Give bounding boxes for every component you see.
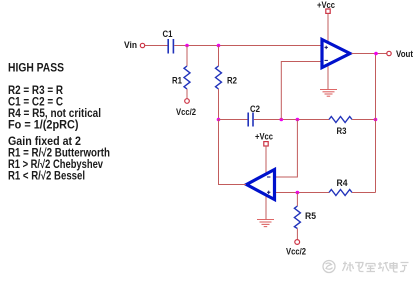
ground under U2 (257, 220, 274, 227)
resistor R5 (294, 206, 316, 229)
capacitor C2 (248, 104, 260, 127)
note text HIGH PASS (8, 63, 110, 183)
wire riser to op-amp U2 minus input (276, 120, 297, 178)
node Vout terminal (387, 49, 414, 60)
node junction riser to U2 minus (296, 118, 300, 122)
resistor R4 (329, 178, 352, 196)
node junction at R2 top (217, 44, 221, 48)
svg-text:R4: R4 (337, 178, 348, 188)
svg-text:Vout: Vout (396, 49, 414, 60)
wire R3 to right bus (352, 119, 376, 121)
svg-text:R1 = R/√2 Butterworth: R1 = R/√2 Butterworth (8, 147, 110, 160)
wire right bus Vout to R4 (375, 54, 377, 193)
svg-text:Vcc/2: Vcc/2 (286, 247, 306, 257)
wire Vin to C1 (145, 45, 168, 47)
svg-text:Fo = 1/(2pRC): Fo = 1/(2pRC) (8, 120, 79, 132)
node junction R3 right (374, 118, 378, 122)
node +Vcc terminal U1 (317, 0, 335, 13)
wire +Vcc to U2 (265, 146, 267, 176)
svg-text:R1: R1 (172, 76, 182, 86)
svg-text:R1 > R/√2 Chebyshev: R1 > R/√2 Chebyshev (8, 158, 103, 171)
wire middle rail to C2 (219, 119, 248, 121)
svg-text:C1 = C2 = C: C1 = C2 = C (8, 97, 63, 109)
svg-text:R2 = R3 = R: R2 = R3 = R (8, 85, 64, 97)
wire R5 bottom lead (296, 229, 298, 240)
node junction feedback riser U1 (280, 118, 284, 122)
wire riser to op-amp U1 minus input (281, 62, 320, 120)
wire R4 to right bus (352, 192, 376, 194)
wire U1 output to Vout (352, 53, 387, 55)
watermark logo (323, 261, 335, 273)
svg-text:R2: R2 (227, 76, 237, 86)
node +Vcc terminal U2 (255, 132, 273, 147)
ground under U1 (320, 90, 337, 97)
wire R2 top lead (218, 46, 220, 67)
wire R5 top lead (296, 193, 298, 207)
svg-text:Vcc/2: Vcc/2 (176, 107, 196, 117)
wire R1 top lead (186, 46, 188, 67)
resistor R2 (216, 66, 238, 89)
svg-text:HIGH PASS: HIGH PASS (8, 63, 64, 75)
node Vin terminal (124, 40, 145, 51)
svg-text:Gain fixed at 2: Gain fixed at 2 (8, 136, 81, 148)
node junction at R1 top (185, 44, 189, 48)
resistor R1 (172, 66, 190, 89)
wire R1 bottom lead (186, 89, 188, 99)
wire U2 to ground (265, 194, 267, 220)
node junction R5 top (296, 191, 300, 195)
wire U2 plus input to R4 (276, 192, 329, 194)
svg-text:R4 = R5, not critical: R4 = R5, not critical (8, 108, 101, 120)
wire R2 bottom lead to middle rail (218, 89, 220, 120)
svg-text:R1 < R/√2 Bessel: R1 < R/√2 Bessel (8, 170, 85, 183)
wire U1 to ground (327, 64, 329, 90)
svg-text:+Vcc: +Vcc (255, 132, 273, 142)
op-amp U2 (247, 170, 275, 200)
wire U2 output to feedback (219, 120, 247, 185)
node junction Vout (374, 52, 378, 56)
svg-text:C1: C1 (163, 29, 173, 39)
resistor R3 (329, 117, 352, 137)
node junction R2 bottom (217, 118, 221, 122)
capacitor C1 (163, 29, 174, 54)
node Vcc/2 terminal under R5 (286, 240, 306, 257)
wire C2 to R3 (254, 119, 329, 121)
node Vcc/2 terminal under R1 (176, 99, 196, 117)
watermark text (343, 262, 409, 273)
svg-text:R3: R3 (337, 126, 347, 136)
op-amp U1 (322, 40, 350, 68)
wire +Vcc to U1 (327, 14, 329, 43)
svg-text:R5: R5 (305, 211, 316, 221)
svg-text:C2: C2 (250, 104, 260, 114)
wire C1 to op-amp U1 plus input (174, 45, 320, 47)
svg-text:Vin: Vin (124, 40, 137, 51)
